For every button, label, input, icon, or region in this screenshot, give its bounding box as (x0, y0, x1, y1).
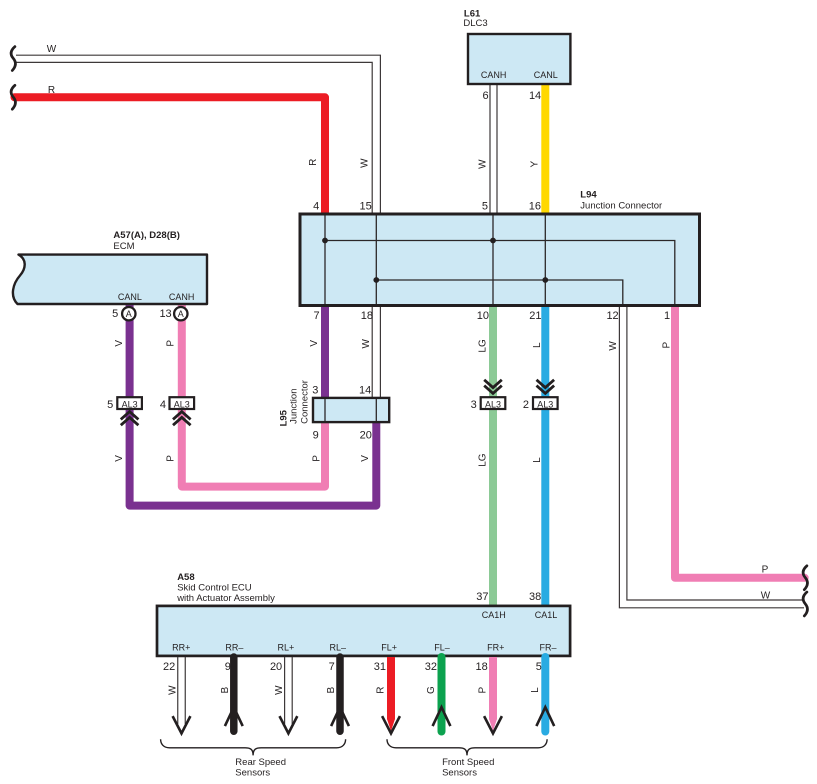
chevron up (FL-) (433, 707, 451, 726)
break symbol W wire left (11, 47, 15, 71)
svg-text:W: W (47, 44, 57, 55)
svg-text:5: 5 (482, 201, 488, 213)
svg-text:B: B (220, 686, 231, 693)
svg-text:13: 13 (159, 308, 171, 320)
chevron up (RL-) (331, 707, 349, 726)
wire B (RR- sensor) (230, 657, 238, 731)
svg-text:Junction: Junction (289, 389, 300, 424)
svg-text:5: 5 (536, 661, 542, 673)
svg-text:FR+: FR+ (487, 642, 504, 652)
svg-text:2: 2 (523, 399, 529, 411)
svg-text:FR–: FR– (539, 642, 556, 652)
svg-text:P: P (662, 342, 673, 349)
arrow down (RR+) (173, 716, 191, 733)
wire P (ECM CANH pin 13 through AL3 to L95 pin 9) (182, 305, 325, 487)
svg-text:G: G (426, 686, 437, 694)
svg-text:CA1H: CA1H (482, 610, 506, 620)
svg-text:6: 6 (482, 90, 488, 102)
svg-text:RR–: RR– (225, 642, 243, 652)
svg-text:V: V (114, 455, 125, 462)
svg-text:Sensors: Sensors (442, 768, 477, 779)
connector AL3 box (pin 4, P wire) (170, 397, 195, 409)
svg-text:L: L (530, 687, 541, 693)
svg-text:CANH: CANH (169, 292, 195, 302)
svg-text:R: R (308, 159, 319, 166)
wire W (L94 pin 12 to right break) (619, 305, 804, 608)
svg-text:4: 4 (313, 201, 319, 213)
ECM box A57 (13, 255, 207, 304)
connector DLC3 L61 box (468, 34, 570, 84)
wire W (RL+ sensor) (285, 657, 293, 724)
svg-text:16: 16 (529, 201, 541, 213)
svg-text:W: W (361, 339, 372, 349)
svg-text:18: 18 (476, 661, 488, 673)
svg-text:P: P (165, 455, 176, 462)
svg-text:P: P (311, 455, 322, 462)
svg-text:W: W (167, 685, 178, 695)
junction dot pin4 bus (322, 238, 328, 244)
svg-text:14: 14 (529, 90, 541, 102)
brace rear speed sensors (161, 739, 346, 755)
svg-text:DLC3: DLC3 (463, 18, 487, 29)
svg-text:5: 5 (112, 308, 118, 320)
svg-text:7: 7 (313, 310, 319, 322)
svg-text:32: 32 (425, 661, 437, 673)
L94 internal wire pin15-pin18 (375, 216, 377, 305)
connector AL3 box (pin 5, V wire) (117, 397, 142, 409)
wire W (left break to L94 pin 15) (16, 55, 380, 213)
wire Y (DLC3 CANL to L94 pin 16) (541, 84, 549, 213)
wire R (left break to L94 pin 4) (15, 97, 326, 213)
wire W (L94 pin 18 to L95 pin 14) (372, 305, 380, 398)
wire R (FL+ sensor) (387, 657, 395, 720)
svg-text:Front Speed: Front Speed (442, 757, 494, 768)
svg-text:L95: L95 (278, 409, 289, 426)
wire L (L94 pin 21 to A58 pin 38) (541, 305, 549, 606)
L94 internal bus wire to pin 1 (325, 241, 675, 305)
svg-text:20: 20 (270, 661, 282, 673)
svg-text:A: A (178, 309, 184, 319)
wire L (FR- sensor) (541, 657, 549, 732)
junction dot pin15 bus (373, 277, 379, 283)
wire W (DLC3 CANH to L94 pin 5) (490, 84, 497, 213)
double chevron up (AL3 pin5) (121, 412, 139, 426)
svg-text:22: 22 (163, 661, 175, 673)
svg-text:L94: L94 (580, 190, 597, 201)
connector circle A (ECM pin 5) (122, 307, 135, 320)
svg-text:AL3: AL3 (122, 399, 138, 409)
svg-text:B: B (326, 686, 337, 693)
svg-text:Y: Y (529, 161, 540, 168)
L94 internal bus wire to pin 12 (376, 280, 623, 304)
L94 internal wire pin4-pin7 (324, 216, 326, 305)
svg-text:ECM: ECM (113, 241, 134, 252)
arrow down (FR+) (484, 716, 502, 733)
junction connector L95 box (313, 398, 389, 422)
svg-text:V: V (114, 340, 125, 347)
svg-text:7: 7 (329, 661, 335, 673)
connector AL3 box (pin 3, LG wire) (481, 397, 506, 409)
wire W (RR+ sensor) (178, 657, 186, 724)
svg-text:CA1L: CA1L (535, 610, 558, 620)
svg-text:4: 4 (160, 399, 166, 411)
svg-text:20: 20 (360, 430, 372, 442)
svg-text:RR+: RR+ (172, 642, 190, 652)
svg-text:W: W (274, 685, 285, 695)
wire LG (L94 pin 10 to A58 pin 37) (489, 305, 497, 606)
svg-text:Rear Speed: Rear Speed (235, 757, 286, 768)
double chevron up (AL3 pin4) (173, 412, 191, 426)
wire P (L94 pin 1 to right break) (675, 305, 805, 578)
break symbol R wire left (11, 85, 15, 109)
svg-text:L: L (532, 457, 543, 463)
svg-text:9: 9 (313, 430, 319, 442)
svg-text:15: 15 (360, 201, 372, 213)
wire G (FL- sensor) (438, 657, 446, 732)
svg-text:1: 1 (664, 310, 670, 322)
svg-text:P: P (478, 686, 489, 693)
svg-text:21: 21 (529, 310, 541, 322)
svg-text:V: V (309, 340, 320, 347)
svg-text:AL3: AL3 (537, 399, 553, 409)
svg-text:V: V (360, 455, 371, 462)
svg-text:W: W (359, 158, 370, 168)
svg-text:RL+: RL+ (278, 642, 295, 652)
double chevron down (AL3 pin2) (537, 380, 555, 394)
svg-text:AL3: AL3 (485, 399, 501, 409)
junction dot pin5 bus (490, 238, 496, 244)
wire V (L94 pin 7 to L95 pin 3) (321, 305, 329, 398)
svg-text:W: W (608, 341, 619, 351)
svg-text:Sensors: Sensors (235, 768, 270, 779)
svg-text:12: 12 (606, 310, 618, 322)
svg-text:Skid Control ECU: Skid Control ECU (177, 583, 252, 594)
svg-text:5: 5 (107, 399, 113, 411)
svg-text:AL3: AL3 (174, 399, 190, 409)
svg-text:R: R (376, 686, 387, 693)
junction connector L94 box (300, 214, 700, 306)
svg-text:A: A (126, 309, 132, 319)
svg-text:W: W (477, 159, 488, 169)
svg-text:A57(A), D28(B): A57(A), D28(B) (113, 230, 180, 241)
svg-text:P: P (762, 565, 769, 576)
svg-text:P: P (165, 340, 176, 347)
svg-text:FL+: FL+ (381, 642, 397, 652)
svg-text:LG: LG (477, 453, 488, 467)
svg-text:CANL: CANL (534, 70, 558, 80)
double chevron down (AL3 pin3) (484, 380, 502, 394)
svg-text:3: 3 (312, 385, 318, 397)
svg-text:LG: LG (477, 339, 488, 353)
svg-text:Connector: Connector (299, 380, 310, 424)
brace front speed sensors (387, 739, 547, 755)
arrow down (RL+) (280, 716, 298, 733)
svg-text:37: 37 (476, 591, 488, 603)
svg-text:CANH: CANH (481, 70, 507, 80)
svg-text:3: 3 (471, 399, 477, 411)
svg-text:31: 31 (374, 661, 386, 673)
svg-text:with Actuator Assembly: with Actuator Assembly (176, 593, 275, 604)
svg-text:RL–: RL– (330, 642, 347, 652)
svg-text:A58: A58 (177, 572, 194, 583)
skid control ECU A58 box (157, 606, 570, 656)
junction dot pin16 bus (542, 277, 548, 283)
wire B (RL- sensor) (336, 657, 344, 731)
svg-text:Junction Connector: Junction Connector (580, 201, 662, 212)
svg-text:FL–: FL– (434, 642, 450, 652)
svg-text:R: R (48, 85, 55, 96)
svg-text:18: 18 (361, 310, 373, 322)
chevron up (RR-) (225, 707, 243, 726)
L94 internal wire pin16-pin21 (544, 216, 546, 305)
connector circle A (ECM pin 13) (174, 307, 187, 320)
break symbol P wire right (803, 566, 807, 590)
svg-text:38: 38 (529, 591, 541, 603)
svg-text:10: 10 (477, 310, 489, 322)
svg-text:14: 14 (359, 385, 371, 397)
arrow down (FL+) (382, 716, 400, 733)
svg-text:W: W (761, 590, 771, 601)
L94 internal wire pin5-pin10 (492, 216, 494, 305)
connector AL3 box (pin 2, L wire) (533, 397, 558, 409)
break symbol W wire right (803, 592, 807, 616)
chevron up (FR-) (536, 707, 554, 726)
wire V (ECM CANL pin 5 through AL3 to L95 pin 20) (130, 305, 377, 506)
svg-text:L: L (532, 342, 543, 348)
svg-text:CANL: CANL (118, 292, 142, 302)
wire P (FR+ sensor) (489, 657, 497, 720)
svg-text:9: 9 (225, 661, 231, 673)
